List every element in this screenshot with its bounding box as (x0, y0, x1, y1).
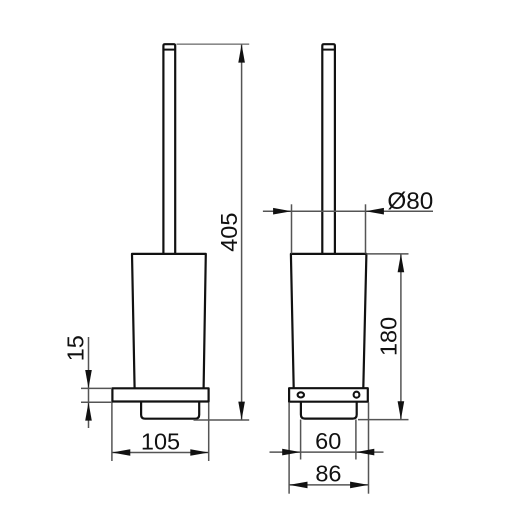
wall plate (side view) (289, 388, 368, 402)
arrowhead 180 top (398, 254, 405, 272)
extension line right of 60 (355, 420, 357, 460)
screw hole left (side view) (298, 392, 304, 397)
holder cup below plate (side view) (301, 402, 357, 419)
extension line left of 105 (111, 403, 113, 462)
wall plate (front view) (112, 388, 208, 401)
arrowhead 405 top (238, 44, 245, 62)
extension line left of diameter 80 (291, 204, 293, 253)
extension line left of 60 (300, 420, 302, 460)
extension line right of diameter 80 (365, 204, 367, 253)
brush handle rod (side view) (322, 44, 335, 254)
dimension line 180 (400, 254, 402, 420)
svg-text:405: 405 (216, 213, 242, 252)
extension line bottom of 405 (194, 419, 250, 421)
arrowhead 15 lower (points up) (85, 402, 92, 420)
extension line top of 180 (366, 253, 408, 255)
svg-text:Ø80: Ø80 (387, 188, 433, 215)
arrowhead 105 right (190, 449, 208, 456)
brush handle rod (front view) (163, 44, 175, 254)
extension line top of 405 (177, 43, 250, 45)
dimension line diameter 80 (263, 210, 433, 212)
holder cup below plate (front view) (141, 402, 199, 419)
dimension line 60 (270, 451, 384, 453)
arrowhead diameter80 left (points right) (273, 208, 291, 215)
arrowhead 86 right (350, 482, 368, 489)
arrowhead 60 left (points right) (282, 449, 300, 456)
extension line right of 105 (208, 403, 210, 462)
arrowhead 405 bottom (238, 402, 245, 420)
container body (front view) (132, 254, 206, 389)
arrowhead 15 upper (points down) (85, 370, 92, 388)
dimension line 405 (241, 44, 243, 420)
svg-text:60: 60 (315, 428, 341, 454)
arrowhead 86 left (289, 482, 307, 489)
extension line top of 15 (81, 387, 112, 389)
arrowhead 60 right (points left) (356, 449, 374, 456)
svg-text:86: 86 (315, 461, 341, 487)
rod cap line (side view) (322, 49, 335, 51)
container body (side view) (291, 254, 367, 388)
arrowhead 180 bottom (398, 401, 405, 419)
dimension line 105 (112, 452, 209, 454)
svg-text:105: 105 (141, 429, 180, 455)
extension line right of 86 (368, 402, 370, 493)
extension line left of 86 (288, 402, 290, 493)
dimension line 15 (88, 337, 90, 428)
dimension line 86 (289, 484, 368, 486)
arrowhead diameter80 right (points left) (366, 208, 384, 215)
rod cap line (front view) (163, 49, 175, 51)
arrowhead 105 left (112, 449, 130, 456)
screw hole right (side view) (354, 392, 360, 398)
svg-text:15: 15 (63, 335, 89, 361)
svg-text:180: 180 (376, 317, 402, 356)
extension line bottom of 15 (81, 401, 112, 403)
extension line bottom of 180 (358, 419, 409, 421)
